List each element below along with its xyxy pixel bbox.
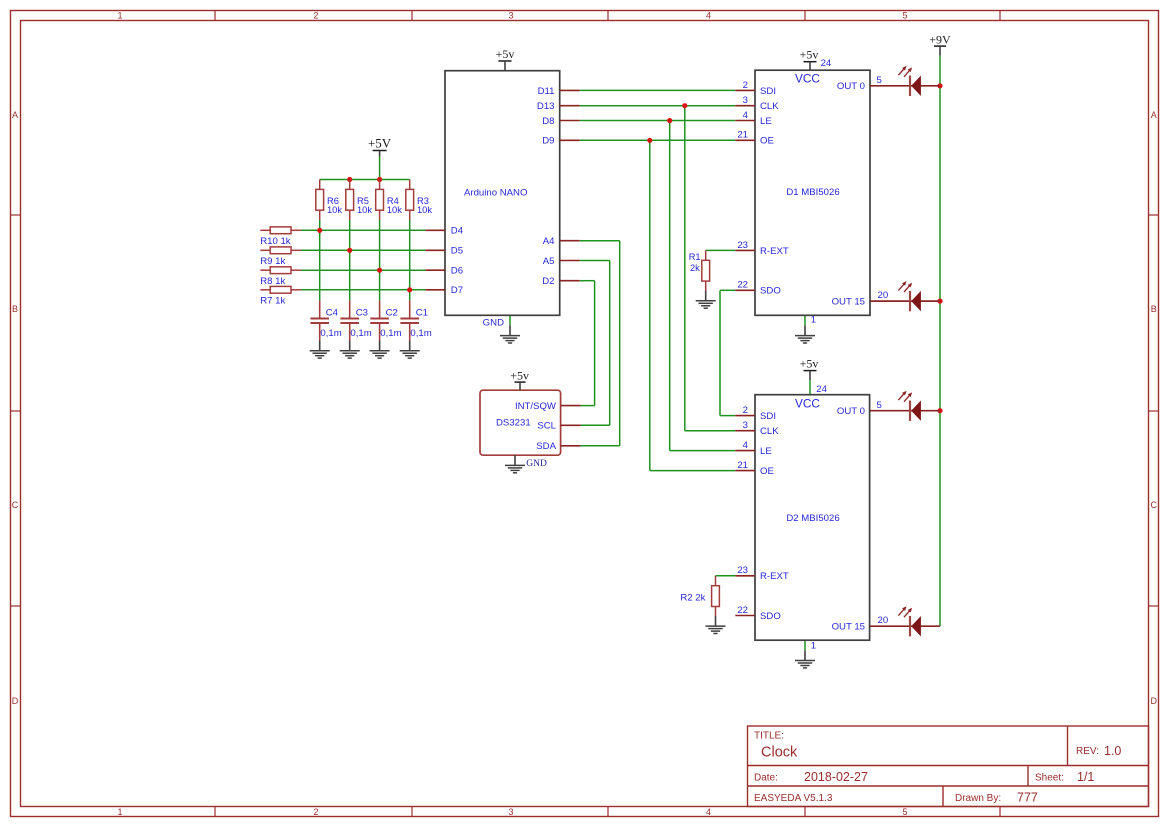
ground below C1 — [409, 341, 411, 351]
svg-text:SDI: SDI — [760, 86, 776, 97]
svg-text:4: 4 — [706, 807, 711, 817]
svg-text:1: 1 — [811, 641, 816, 652]
svg-text:A4: A4 — [543, 236, 555, 247]
resistor R7 1k — [260, 286, 301, 306]
svg-text:CLK: CLK — [760, 101, 779, 112]
wire column R4 to C2 — [379, 220, 381, 301]
svg-text:21: 21 — [737, 460, 748, 471]
wire +9V rail — [939, 56, 941, 627]
svg-text:24: 24 — [816, 384, 827, 395]
svg-text:3: 3 — [508, 10, 513, 20]
svg-text:D11: D11 — [538, 86, 555, 97]
junction D7-R3 — [407, 287, 412, 292]
junction D4-R6 — [317, 228, 322, 233]
wire row D6 — [301, 269, 425, 271]
capacitor C3 0,1m — [340, 301, 371, 341]
wire R1 to R-EXT — [706, 249, 736, 251]
ground below R1 — [705, 291, 707, 301]
svg-text:OUT 0: OUT 0 — [837, 81, 865, 92]
svg-text:1: 1 — [117, 807, 122, 817]
wire SCL into DS3231 — [581, 424, 610, 426]
svg-text:R-EXT: R-EXT — [760, 571, 789, 582]
resistor R6 10k — [316, 180, 343, 221]
svg-text:2k: 2k — [690, 263, 700, 273]
svg-text:B: B — [1151, 304, 1157, 314]
wire column R3 to C1 — [409, 220, 411, 301]
svg-text:10k: 10k — [387, 205, 402, 215]
wire A5-SCL vertical — [609, 261, 611, 426]
svg-text:24: 24 — [821, 58, 832, 69]
svg-text:C3: C3 — [356, 307, 368, 318]
DS3231 right pins INT/SQW SCL SDA — [515, 401, 581, 452]
svg-text:Clock: Clock — [761, 745, 798, 761]
wire SDO out of D1 — [720, 289, 735, 291]
svg-text:R2 2k: R2 2k — [680, 592, 705, 603]
LED 1 at OUT row 85.8 — [870, 66, 940, 96]
svg-text:OUT 15: OUT 15 — [832, 296, 865, 307]
svg-text:2: 2 — [743, 405, 748, 416]
wire CLK into D2 — [685, 430, 736, 432]
power +5V at pullup bus — [368, 135, 392, 156]
svg-text:D6: D6 — [451, 266, 463, 277]
svg-text:OUT 15: OUT 15 — [832, 621, 865, 632]
svg-text:4: 4 — [706, 10, 711, 20]
svg-text:VCC: VCC — [795, 397, 820, 411]
resistor R10 1k — [260, 227, 301, 247]
IC DS3231 body — [480, 390, 561, 455]
wire D13 to CLK — [580, 105, 736, 107]
junction D5-R5 — [347, 248, 352, 253]
junction CLK tap — [682, 103, 687, 108]
resistor R8 1k — [260, 267, 301, 287]
svg-text:0,1m: 0,1m — [320, 328, 341, 339]
svg-text:10k: 10k — [327, 205, 342, 215]
svg-text:C1: C1 — [416, 307, 428, 318]
resistor R4 10k — [376, 180, 403, 221]
svg-text:20: 20 — [878, 615, 889, 626]
svg-text:10k: 10k — [417, 205, 432, 215]
svg-text:OE: OE — [760, 136, 774, 147]
svg-text:R-EXT: R-EXT — [760, 246, 789, 257]
svg-text:1.0: 1.0 — [1104, 744, 1121, 758]
svg-text:1: 1 — [117, 10, 122, 20]
IC Arduino NANO body — [445, 71, 560, 316]
Arduino NANO right pins D11 D13 D8 D9 A4 A5 D2 — [537, 86, 580, 287]
wire D9 to OE — [580, 139, 736, 141]
capacitor C4 0,1m — [310, 301, 341, 341]
D2 pin 1 ground — [795, 641, 816, 668]
svg-text:D2 MBI5026: D2 MBI5026 — [786, 513, 839, 524]
svg-text:D13: D13 — [537, 101, 555, 112]
wire A4-SDA vertical — [619, 241, 621, 446]
svg-text:777: 777 — [1017, 791, 1038, 805]
svg-text:3: 3 — [743, 95, 748, 106]
wire INT/SQW into DS3231 — [581, 405, 595, 407]
svg-text:23: 23 — [737, 565, 748, 576]
title block grid — [748, 726, 1149, 807]
svg-text:SDO: SDO — [760, 611, 781, 622]
svg-text:D1 MBI5026: D1 MBI5026 — [786, 187, 839, 198]
wire R2 to R-EXT — [716, 575, 736, 577]
svg-text:R9 1k: R9 1k — [260, 256, 285, 267]
svg-text:10k: 10k — [357, 205, 372, 215]
svg-text:20: 20 — [878, 290, 889, 301]
D1 right pin labels OUT0 OUT15 — [832, 75, 889, 307]
power +9V at rail top — [929, 32, 951, 55]
svg-text:SDI: SDI — [760, 411, 776, 422]
LED 3 at OUT row 410.7 — [870, 391, 940, 421]
wire D8 to LE — [580, 120, 736, 122]
svg-text:22: 22 — [737, 605, 748, 616]
svg-text:0,1m: 0,1m — [350, 328, 371, 339]
svg-text:3: 3 — [743, 420, 748, 431]
wire OE into D2 — [650, 470, 736, 472]
resistor R2 2k — [680, 576, 719, 617]
svg-text:TITLE:: TITLE: — [754, 731, 784, 742]
junction rail OUT15 D1 — [937, 299, 942, 304]
wire LE drop vertical — [669, 121, 671, 451]
power +5v at Arduino NANO — [496, 47, 515, 70]
power +5v at DS3231 — [510, 368, 529, 390]
D1 pin 1 ground — [795, 315, 816, 344]
svg-text:5: 5 — [902, 807, 907, 817]
svg-text:4: 4 — [743, 110, 749, 121]
wire column R5 to C3 — [349, 220, 351, 301]
svg-text:C4: C4 — [326, 307, 339, 318]
power +5v at D2 pin 24 — [800, 357, 828, 396]
svg-text:+5V: +5V — [368, 135, 392, 150]
svg-text:R8 1k: R8 1k — [260, 276, 285, 287]
D2 right pin labels OUT0 OUT15 — [832, 400, 889, 632]
svg-text:1: 1 — [811, 315, 816, 326]
D2 left pins SDI CLK LE OE R-EXT SDO — [735, 405, 789, 622]
junction OE tap — [647, 138, 652, 143]
svg-text:D5: D5 — [451, 246, 463, 257]
junction D6-R4 — [377, 268, 382, 273]
svg-text:D2: D2 — [542, 276, 554, 287]
wire cascade into D2 SDI — [720, 415, 735, 417]
junction bus-R5 — [347, 177, 352, 182]
svg-text:SCL: SCL — [537, 421, 556, 432]
svg-text:2: 2 — [313, 10, 318, 20]
svg-text:LE: LE — [760, 446, 772, 457]
wire row D7 — [301, 289, 425, 291]
Arduino NANO GND pin — [483, 318, 520, 343]
svg-text:2018-02-27: 2018-02-27 — [804, 770, 868, 784]
svg-text:GND: GND — [483, 318, 504, 329]
resistor R1 2k — [689, 250, 710, 291]
svg-text:+5v: +5v — [510, 368, 529, 382]
wire CLK drop vertical — [684, 106, 686, 431]
resistor R3 10k — [406, 180, 433, 221]
wire +5V feed to bus — [379, 157, 381, 180]
svg-text:EASYEDA V5.1.3: EASYEDA V5.1.3 — [754, 793, 833, 804]
svg-text:R7 1k: R7 1k — [260, 296, 285, 307]
svg-text:5: 5 — [902, 10, 907, 20]
LED 4 at OUT row 626.2 — [870, 606, 940, 636]
svg-text:C: C — [1150, 500, 1157, 510]
wire D1 pin1 stub — [804, 315, 806, 325]
svg-text:Date:: Date: — [754, 773, 778, 784]
D1 left pins SDI CLK LE OE R-EXT SDO — [735, 80, 789, 297]
wire D11 to SDI — [580, 89, 736, 91]
resistor R5 10k — [346, 180, 373, 221]
svg-text:VCC: VCC — [795, 71, 820, 85]
svg-text:LE: LE — [760, 116, 772, 127]
svg-text:Drawn By:: Drawn By: — [955, 793, 1001, 804]
svg-text:OUT 0: OUT 0 — [837, 406, 865, 417]
svg-text:D9: D9 — [542, 136, 554, 147]
svg-text:A: A — [1151, 110, 1157, 120]
Arduino NANO left pins D4 D5 D6 D7 — [425, 226, 463, 297]
svg-text:Arduino NANO: Arduino NANO — [464, 188, 527, 199]
svg-text:D7: D7 — [451, 285, 463, 296]
svg-text:5: 5 — [877, 400, 882, 411]
svg-text:OE: OE — [760, 466, 774, 477]
svg-text:R10 1k: R10 1k — [260, 236, 291, 247]
wire row D5 — [301, 249, 425, 251]
wire Arduino GND stub — [509, 315, 511, 325]
svg-text:A5: A5 — [543, 256, 555, 267]
capacitor C2 0,1m — [370, 301, 401, 341]
ground below C2 — [379, 341, 381, 351]
svg-text:22: 22 — [737, 280, 748, 291]
title block text — [754, 731, 1121, 805]
LED 2 at OUT row 301.1 — [870, 281, 940, 311]
junction bus-+5V-R4 — [377, 177, 382, 182]
wire D2 pin1 stub — [804, 640, 806, 650]
svg-text:SDA: SDA — [536, 441, 556, 452]
svg-text:+9V: +9V — [929, 32, 951, 46]
wire D2pin east — [580, 280, 595, 282]
svg-text:23: 23 — [737, 240, 748, 251]
svg-text:D: D — [12, 696, 19, 706]
capacitor C1 0,1m — [400, 301, 431, 341]
IC D2 MBI5026 body — [755, 395, 870, 641]
svg-text:+5v: +5v — [800, 357, 819, 371]
svg-text:D8: D8 — [542, 116, 554, 127]
svg-text:0,1m: 0,1m — [410, 328, 431, 339]
svg-text:+5v: +5v — [800, 47, 819, 61]
wire A4 east — [580, 240, 620, 242]
wire D2 VCC stub — [809, 380, 811, 395]
svg-text:4: 4 — [743, 440, 749, 451]
svg-text:A: A — [12, 110, 18, 120]
svg-text:SDO: SDO — [760, 286, 781, 297]
svg-text:1/1: 1/1 — [1077, 770, 1094, 784]
wire A5 east — [580, 260, 610, 262]
svg-text:GND: GND — [526, 459, 547, 469]
wire D2pin-INT vertical — [594, 281, 596, 406]
svg-text:3: 3 — [508, 807, 513, 817]
wire column R6 to C4 — [319, 220, 321, 301]
svg-text:B: B — [12, 304, 18, 314]
ground below R2 — [715, 616, 717, 626]
resistor R9 1k — [260, 247, 301, 267]
svg-text:C2: C2 — [386, 307, 398, 318]
svg-text:INT/SQW: INT/SQW — [515, 401, 557, 412]
svg-text:DS3231: DS3231 — [496, 417, 531, 428]
svg-text:0,1m: 0,1m — [380, 328, 401, 339]
svg-text:2: 2 — [313, 807, 318, 817]
IC D1 MBI5026 body — [755, 70, 870, 315]
junction LE tap — [667, 118, 672, 123]
svg-text:2: 2 — [743, 80, 748, 91]
wire LE into D2 — [670, 450, 736, 452]
wire OE drop vertical — [649, 140, 651, 470]
svg-text:R1: R1 — [689, 252, 701, 262]
ground below C3 — [349, 341, 351, 351]
power +5v at D1 pin 24 — [800, 47, 832, 70]
ground below C4 — [319, 341, 321, 351]
svg-text:+5v: +5v — [496, 47, 515, 61]
svg-text:5: 5 — [877, 75, 882, 86]
junction rail OUT0 D2 — [937, 408, 942, 413]
wire row D4 — [301, 229, 425, 231]
svg-text:CLK: CLK — [760, 426, 779, 437]
svg-text:Sheet:: Sheet: — [1035, 773, 1064, 784]
svg-text:REV:: REV: — [1076, 746, 1099, 757]
svg-text:D: D — [1150, 696, 1157, 706]
wire SDA into DS3231 — [581, 445, 620, 447]
svg-text:C: C — [12, 500, 19, 510]
svg-text:D4: D4 — [451, 226, 464, 237]
junction rail OUT0 D1 — [937, 83, 942, 88]
wire SDO cascade vertical — [719, 290, 721, 415]
DS3231 ground with GND net label — [505, 455, 547, 473]
svg-text:21: 21 — [737, 130, 748, 141]
wire +5V bus over pullups — [320, 179, 410, 181]
